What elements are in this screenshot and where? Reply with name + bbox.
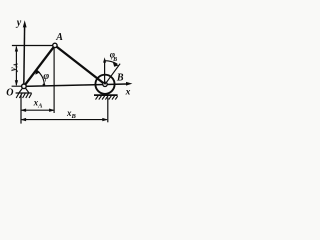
svg-text:O: O [6, 87, 13, 98]
ground line under wheel [94, 94, 118, 96]
pivot O hatching [16, 93, 31, 98]
svg-text:B: B [116, 73, 124, 84]
ground hatching under wheel [96, 96, 118, 100]
wheel hub [103, 82, 107, 86]
dimension line xA [22, 109, 54, 111]
vertical extension below B [107, 98, 109, 123]
extension line at A level [12, 45, 53, 47]
crank OA [24, 45, 55, 86]
joint A [53, 43, 57, 47]
svg-text:φ: φ [43, 71, 49, 82]
y axis [23, 27, 26, 87]
x axis [24, 84, 127, 86]
dimension line yA [15, 47, 17, 86]
connecting rod AB [55, 45, 105, 84]
pivot O ground line [16, 92, 32, 94]
vertical extension below A [53, 48, 55, 113]
wheel at B: outer rim [95, 75, 114, 94]
svg-text:A: A [55, 32, 63, 43]
pivot O support triangle [19, 88, 29, 93]
svg-text:x: x [125, 87, 131, 97]
pivot O joint circle [22, 84, 27, 89]
extension line at O level [12, 85, 22, 87]
vertical extension below O [20, 95, 22, 124]
svg-text:y: y [16, 18, 22, 29]
angle arc phi at O [37, 71, 44, 87]
inclined radius at B [105, 64, 120, 85]
angle arc phiB [105, 61, 117, 64]
vertical radius at B [104, 60, 106, 85]
dimension line xB [22, 119, 107, 121]
